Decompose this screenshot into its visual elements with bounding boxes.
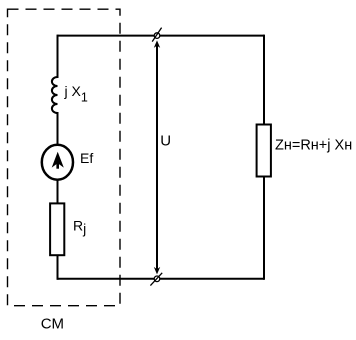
svg-text:Rj: Rj (73, 218, 86, 237)
wire load to bottom rail (263, 177, 265, 280)
node bottom terminal circle (154, 276, 160, 282)
wire inductor to source (57, 112, 59, 146)
wire right branch top (263, 35, 265, 125)
wire resistor to bottom rail (57, 256, 59, 280)
wire top rail (58, 35, 265, 37)
voltage arrow U head bottom (154, 267, 160, 275)
wire left branch top (57, 35, 59, 78)
voltage arrow U shaft (156, 44, 158, 271)
wire bottom rail (58, 278, 265, 280)
inductor jX1 (52, 77, 58, 113)
svg-text:U: U (160, 133, 171, 150)
node bottom terminal slash (150, 273, 162, 286)
source Ef arrow (52, 152, 64, 168)
svg-text:Ef: Ef (80, 150, 93, 166)
source Ef (circle) (42, 145, 73, 180)
svg-text:Zн=Rн+j Xн: Zн=Rн+j Xн (275, 137, 352, 153)
voltage arrow U head top (154, 40, 160, 48)
svg-text:СМ: СМ (41, 316, 64, 333)
wire source to resistor (57, 180, 59, 204)
enclosure CM dashed box (8, 9, 121, 306)
node top terminal circle (154, 33, 160, 39)
resistor Rj (50, 203, 64, 255)
node top terminal slash (152, 28, 161, 42)
load Zn (257, 125, 271, 177)
